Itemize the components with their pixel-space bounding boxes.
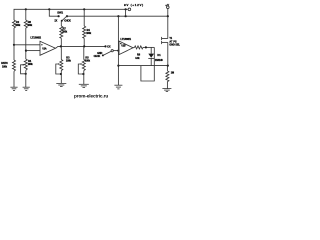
op-amp U1A (40, 41, 56, 55)
ground GND6 (162, 89, 171, 92)
wire Vin terminal drop (125, 9, 127, 16)
svg-text:1M: 1M (171, 72, 174, 75)
svg-text:prom-electric.ru: prom-electric.ru (74, 93, 108, 98)
svg-text:100k: 100k (28, 63, 34, 66)
svg-text:100k: 100k (86, 32, 92, 35)
svg-text:100k: 100k (27, 24, 33, 27)
node R5 wiper (82, 73, 84, 75)
wire R6 to node (25, 28, 27, 59)
potentiometer R1 (24, 59, 27, 70)
trimmer R5 (83, 46, 85, 59)
trimmer R3 (60, 46, 62, 59)
resistor R4 (83, 9, 85, 26)
wire SW1b to U1B plus input (113, 50, 119, 52)
thermistor RNTC (13, 60, 16, 71)
ground GND3 (56, 83, 66, 86)
svg-text:CX: CX (107, 45, 111, 48)
svg-text:CHCK: CHCK (64, 20, 71, 23)
svg-text:100k: 100k (66, 60, 72, 63)
svg-text:LT1366/2: LT1366/2 (30, 36, 41, 40)
node SW1b pole CX (104, 45, 106, 47)
svg-text:GND SEL: GND SEL (169, 44, 180, 47)
node rail right end (167, 15, 169, 17)
svg-text:100k: 100k (62, 31, 68, 34)
svg-text:100k: 100k (85, 60, 91, 63)
wire node to U1A minus input (14, 44, 40, 46)
wire R1 to ground (25, 70, 27, 87)
node R1 wiper (25, 73, 27, 75)
svg-text:1N4148: 1N4148 (155, 59, 163, 62)
node SW1b contact (102, 54, 104, 56)
node inverting input U1A (13, 44, 15, 46)
node top rail junction D (125, 8, 127, 10)
ground GND5 (114, 85, 122, 89)
node U1B plus input (117, 50, 119, 52)
svg-text:RNTC: RNTC (1, 62, 8, 65)
terminal +V buzzer supply (167, 6, 170, 9)
svg-text:3.3k: 3.3k (135, 57, 140, 60)
resistor R6 (25, 9, 27, 20)
switch SW1 section b arm (104, 51, 112, 55)
svg-text:+V: +V (165, 3, 169, 7)
op-amp U1B (119, 41, 133, 55)
svg-text:U1B: U1B (121, 45, 126, 47)
node non-inverting input U1A (25, 50, 27, 52)
node top rail junction B (48, 8, 50, 10)
node top rail junction C (83, 8, 85, 10)
wire rail to U1B minus input (117, 16, 119, 50)
wire V+ rail lower (67, 15, 168, 17)
resistor R9 (166, 66, 168, 71)
svg-text:D1: D1 (157, 54, 161, 57)
resistor R8 output (133, 46, 135, 48)
svg-text:CHCK: CHCK (94, 55, 101, 58)
wire node to U1A plus input (26, 50, 40, 52)
diode D1 (150, 47, 152, 53)
ground GND1 (10, 87, 17, 90)
node output D1 (145, 46, 147, 48)
svg-text:SW1: SW1 (57, 11, 63, 15)
wire R3 to ground (60, 71, 62, 84)
node top rail junction A (25, 8, 27, 10)
wire R4 to wire C (83, 38, 85, 46)
wire RNTC to ground (13, 71, 15, 87)
wire feedback loop (141, 47, 154, 81)
node R3 wiper (60, 73, 62, 75)
wire D lower node line (118, 65, 167, 67)
svg-text:100k: 100k (2, 66, 8, 69)
node wire D right (167, 65, 169, 67)
svg-text:LT1366/1: LT1366/1 (120, 37, 131, 41)
wire top rail V+ (14, 9, 128, 20)
wire U1B plus to ground (117, 51, 119, 86)
wire U1A output (56, 46, 106, 48)
node wire C R7 (60, 45, 62, 47)
node wire D left (117, 65, 119, 67)
svg-text:U1A: U1A (42, 48, 47, 51)
wire R8 to feedback corner (143, 46, 154, 48)
ground GND2 (23, 87, 30, 90)
node rail-Vin (125, 15, 127, 17)
wire R7 to wire C (60, 38, 62, 46)
wire R5 to ground (83, 71, 85, 85)
ground GND4 (79, 84, 89, 87)
svg-text:100k: 100k (15, 24, 21, 27)
wire R9 to ground (166, 82, 168, 89)
terminal 9V input (128, 8, 131, 11)
node rail-U1B (117, 15, 119, 17)
resistor R2 (13, 20, 16, 28)
wire R2 to node (13, 28, 15, 60)
node wire C R4 (83, 45, 85, 47)
svg-text:9V (+12V): 9V (+12V) (124, 3, 144, 7)
wire terminal to rail (167, 9, 169, 17)
resistor R7 (60, 21, 62, 26)
buzzer Y1 (167, 16, 169, 38)
svg-text:1X: 1X (54, 20, 57, 23)
switch SW1 section a (49, 9, 58, 16)
